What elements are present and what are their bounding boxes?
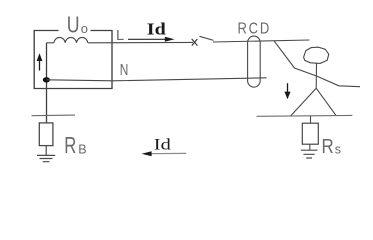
svg-text:o: o (81, 21, 88, 36)
svg-text:RCD: RCD (238, 21, 272, 38)
svg-text:N: N (120, 62, 129, 79)
junction dot (node) (43, 77, 50, 82)
svg-text:L: L (116, 28, 124, 44)
svg-text:Id: Id (147, 19, 166, 38)
resistor RB (39, 123, 53, 146)
winding (source coil) (54, 37, 88, 42)
person body (315, 64, 317, 89)
resistor Rs (302, 123, 318, 144)
svg-text:R: R (64, 132, 76, 158)
up arrow (current direction in source) (39, 60, 41, 71)
RB lower stub (45, 146, 47, 156)
fault wire to person's hand (274, 41, 317, 76)
switch blade (open) (200, 36, 214, 40)
person right arm (317, 76, 360, 87)
ground line (left floor) (32, 114, 76, 117)
ground symbol (RB) (37, 155, 55, 161)
Id arrow (top, pointing right) (128, 38, 167, 40)
svg-text:U: U (67, 12, 80, 38)
Rs lower stub (309, 144, 311, 150)
wire L (switch to head area) (213, 40, 310, 42)
stub floor to Rs (310, 116, 312, 123)
down arrow (fault current through person) (287, 83, 289, 93)
wire L (coil to switch) (88, 41, 193, 43)
transformer box U0 (34, 31, 112, 89)
switch contact x (192, 39, 198, 46)
neutral-point wire (vertical) (46, 43, 48, 123)
wire N (46, 78, 266, 81)
svg-text:Id: Id (154, 137, 171, 154)
RCD toroid (capsule) (248, 36, 261, 87)
svg-text:B: B (78, 143, 86, 157)
coil left terminal stub (47, 42, 54, 44)
Id return arrow (bottom, pointing left) (146, 152, 186, 154)
svg-text:R: R (322, 136, 334, 158)
person legs (291, 88, 336, 116)
ground line under person (257, 114, 353, 117)
svg-text:s: s (335, 143, 341, 157)
person head (304, 47, 329, 63)
ground symbol (Rs) (301, 150, 318, 158)
